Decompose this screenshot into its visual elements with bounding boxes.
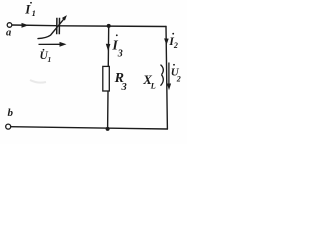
node junction bottom — [106, 127, 110, 131]
voltage arrow U2 — [168, 63, 170, 85]
svg-text:a: a — [6, 28, 11, 39]
terminal b — [6, 124, 11, 129]
svg-text:2: 2 — [176, 74, 181, 83]
background paper — [0, 0, 187, 144]
svg-text:3: 3 — [121, 82, 127, 93]
svg-text:L: L — [150, 81, 156, 91]
svg-text:2: 2 — [173, 41, 178, 50]
current arrow I3 — [106, 44, 111, 51]
label I1 — [24, 2, 36, 19]
capacitor variable arrow — [38, 19, 64, 38]
node junction top — [107, 24, 111, 28]
wire top-right segment — [60, 25, 166, 28]
label I2 — [168, 33, 178, 50]
wire top-left segment — [12, 24, 56, 27]
voltage arrow U1 — [39, 43, 61, 45]
svg-text:1: 1 — [48, 55, 52, 64]
inductor XL coil — [161, 65, 164, 86]
svg-text:1: 1 — [32, 8, 36, 18]
label I3 — [111, 34, 122, 59]
smudge — [30, 80, 46, 83]
svg-text:I: I — [24, 2, 31, 17]
label U1 — [40, 49, 52, 64]
label R3 — [114, 71, 127, 93]
wire bottom — [11, 127, 168, 129]
svg-text:b: b — [8, 107, 14, 119]
capacitor C (variable) plates — [57, 18, 60, 35]
label U2 — [171, 64, 181, 83]
label XL — [142, 72, 156, 91]
wire right branch — [166, 27, 167, 130]
svg-text:3: 3 — [117, 49, 123, 60]
terminal a — [7, 23, 12, 28]
current arrow I1 — [22, 23, 29, 28]
wire middle branch — [108, 26, 109, 129]
resistor R3 — [103, 66, 110, 91]
current arrow I2 — [164, 38, 169, 45]
